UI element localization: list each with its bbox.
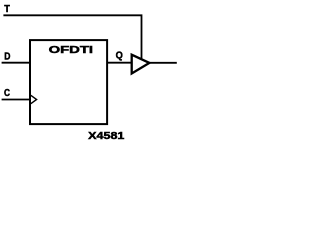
wire Q (flip-flop Q output to buffer input) xyxy=(108,62,132,64)
svg-text:T: T xyxy=(4,3,10,15)
wire C xyxy=(2,99,30,101)
tri-state buffer xyxy=(132,55,150,74)
svg-text:X4581: X4581 xyxy=(88,130,124,142)
svg-text:OFDTI: OFDTI xyxy=(49,44,94,56)
wire O (buffer output) xyxy=(150,62,177,64)
pin C clock chevron xyxy=(31,95,37,103)
svg-text:Q: Q xyxy=(116,50,123,62)
svg-text:D: D xyxy=(4,50,11,62)
svg-text:C: C xyxy=(4,87,10,99)
wire T (net T: horizontal run then down to buffer enable) xyxy=(3,15,141,59)
flip-flop U1 OFDTI body xyxy=(30,40,107,124)
wire D xyxy=(2,62,30,64)
